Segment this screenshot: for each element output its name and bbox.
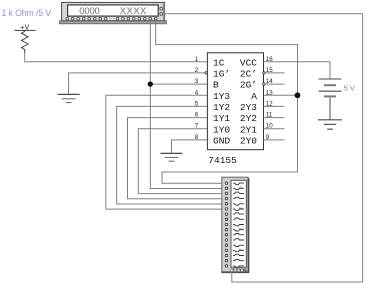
node junction dot on A net (295, 92, 301, 98)
svg-text:0000: 0000 (79, 6, 99, 17)
svg-text:74155: 74155 (208, 155, 237, 166)
wire resistor to IC pin 1 (25, 53, 208, 62)
svg-text:1C: 1C (213, 57, 225, 68)
svg-text:XXXX: XXXX (120, 6, 147, 17)
svg-text:2G’: 2G’ (240, 80, 257, 91)
svg-text:VCC: VCC (240, 57, 257, 68)
node junction dot on B net (148, 81, 153, 86)
wire IC pin 4 (1Y3) nested route to DIP pin 6 (106, 95, 226, 209)
wire IC pin 5 (1Y2) nested route to DIP pin 5 (117, 106, 226, 204)
svg-text:5 V: 5 V (344, 83, 356, 92)
wire IC pin3 stub (150, 83, 207, 85)
DIP switch S1 body (221, 177, 249, 272)
svg-text:6: 6 (195, 112, 199, 119)
wire display to right rail, bottom loop to DIP common (165, 14, 363, 282)
DIP switch alternate-throw gray marks (238, 187, 242, 249)
svg-text:1Y0: 1Y0 (213, 124, 230, 135)
DIP switch pin circles (225, 182, 228, 267)
IC left pin names (213, 57, 230, 146)
DIP switch elements (squiggles) (233, 183, 244, 267)
wire IC pin13 stub to node (264, 94, 298, 96)
svg-text:7: 7 (195, 123, 199, 130)
wire display pin A (x=150.3) down to DIP row2, with junction to IC pin 3 (150, 19, 225, 189)
wire IC pin 7 (1Y0) nested route to DIP pin 3 (138, 129, 225, 194)
ground G1 (left, on 1G' net) (58, 73, 205, 103)
svg-text:2Y1: 2Y1 (240, 124, 257, 135)
IC right unconnected pin stubs 15,14,12,11,10,9 (264, 73, 285, 140)
IC pin 14 inversion bubble (263, 83, 265, 85)
svg-text:B: B (213, 80, 219, 91)
IC right pin names (240, 57, 257, 146)
svg-text:1G’: 1G’ (213, 69, 230, 80)
IC U1 74155 body (207, 53, 263, 150)
resistor R1 zigzag (22, 30, 29, 52)
svg-text:2C’: 2C’ (240, 69, 257, 80)
svg-text:2: 2 (195, 67, 199, 74)
svg-text:1: 1 (195, 56, 199, 63)
svg-text:1Y1: 1Y1 (213, 113, 230, 124)
display bottom pin circles group 1 (66, 17, 107, 20)
svg-text:2Y2: 2Y2 (240, 113, 257, 124)
ground G3 (battery negative) (318, 120, 342, 129)
display U2 body (60, 2, 167, 23)
display right side pin circles (160, 7, 163, 15)
IC pin 2 inversion bubble (205, 72, 207, 74)
svg-text:4: 4 (195, 89, 199, 96)
wire IC pin 6 (1Y1) nested route to DIP pin 4 (128, 118, 226, 199)
svg-text:GND: GND (213, 136, 230, 147)
svg-text:3: 3 (195, 78, 199, 85)
IC pin 15 inversion bubble (263, 72, 265, 74)
svg-text:1 k Ohm /5 V: 1 k Ohm /5 V (2, 8, 52, 18)
wire IC pin 16 VCC to battery (264, 62, 331, 79)
svg-text:1Y3: 1Y3 (213, 91, 230, 102)
svg-text:1Y2: 1Y2 (213, 102, 230, 113)
ground G2 (IC GND pin 8) (161, 140, 208, 161)
wire display pin B (x=155.7) across top to right, down to node A, U-turn to DIP row1 (156, 19, 298, 183)
resistor R1 +V power bar (15, 29, 36, 31)
svg-text:2Y0: 2Y0 (240, 136, 257, 147)
svg-text:5: 5 (195, 100, 199, 107)
display bottom pin circles group 2 (116, 17, 157, 20)
svg-text:2Y3: 2Y3 (240, 102, 257, 113)
IC left pin numbers 1-8 (195, 56, 199, 141)
svg-text:8: 8 (195, 134, 199, 141)
IC right pin numbers 16-9 (266, 56, 273, 141)
battery V1 (319, 79, 342, 120)
svg-text:A: A (251, 91, 257, 102)
svg-text:13: 13 (266, 89, 273, 96)
